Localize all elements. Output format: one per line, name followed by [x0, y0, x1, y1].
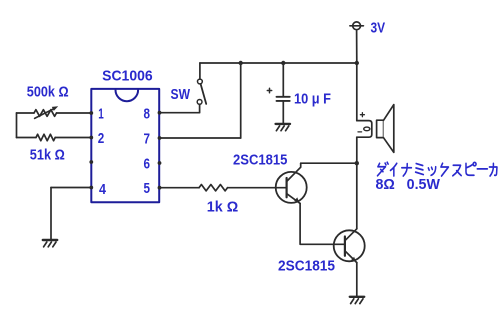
speaker SP1 magnet [377, 120, 384, 137]
ク [441, 163, 449, 176]
wire 1k to Q1 base [228, 187, 287, 189]
ダ [378, 162, 389, 176]
node pin1 dot [89, 111, 93, 115]
wire pin5 row left [160, 187, 200, 189]
カ [489, 163, 497, 176]
wire top rail [200, 62, 357, 64]
transistor Q1 circle [276, 172, 307, 203]
node rail-right junction [355, 61, 359, 65]
ground G2 [276, 124, 290, 131]
wire pin2 row right [55, 137, 91, 139]
svg-text:10 μ F: 10 μ F [294, 92, 331, 108]
node pin5 dot [158, 186, 162, 190]
wire Q1 collector to junction [301, 162, 357, 164]
node pin3 nub [89, 160, 93, 164]
ッ [428, 167, 435, 176]
IC U1 SC1006 body [91, 89, 159, 202]
wire cap bottom [282, 102, 284, 123]
svg-text:SC1006: SC1006 [102, 68, 153, 85]
wire Q2 emitter to ground [356, 263, 358, 296]
wire Q1 emitter down [300, 203, 345, 244]
svg-text:3V: 3V [371, 20, 386, 37]
svg-text:6: 6 [144, 156, 151, 173]
resistor VR1 arrow [35, 108, 55, 118]
wire cap top [282, 63, 284, 96]
svg-text:8Ω 0.5W: 8Ω 0.5W [376, 177, 441, 193]
label dynamic speaker (katakana) [378, 162, 497, 176]
resistor R2 1k zigzag [199, 185, 228, 191]
ピ [466, 162, 476, 175]
transistor Q2 circle [334, 230, 365, 261]
wire pin2 row left [17, 137, 37, 139]
ス [453, 165, 461, 175]
wire pin4 row [51, 187, 91, 189]
node pin8 dot [158, 111, 162, 115]
node rail-cap junction [281, 61, 285, 65]
svg-text:51k Ω: 51k Ω [30, 148, 65, 164]
node pin6 nub [158, 161, 162, 165]
svg-text:2SC1815: 2SC1815 [278, 259, 335, 275]
transistor Q1 base bar [286, 178, 288, 197]
capacitor C1 plus sign [267, 88, 271, 92]
node rail-pin7 junction [239, 61, 243, 65]
transistor Q1 collector [287, 163, 301, 181]
IC U1 notch [116, 90, 139, 101]
svg-text:SW: SW [171, 86, 191, 103]
node pin2 dot [89, 136, 93, 140]
wire 3V down [356, 30, 358, 63]
wire left loop vertical [16, 113, 18, 138]
wire main vertical to speaker [356, 63, 358, 121]
svg-text:1: 1 [98, 106, 104, 123]
transistor Q2 collector [345, 229, 357, 241]
switch SW bottom contact [197, 100, 202, 105]
ー [477, 168, 487, 170]
svg-text:2SC1815: 2SC1815 [233, 153, 287, 169]
switch SW blade [201, 84, 207, 104]
wire pin7 vertical [240, 63, 242, 138]
resistor R1 51k zigzag [36, 134, 55, 140]
svg-text:8: 8 [144, 106, 151, 123]
node pin4 dot [89, 186, 93, 190]
battery terminal 3V [353, 22, 361, 30]
speaker SP1 minus mark [358, 131, 362, 133]
speaker SP1 plus mark [360, 113, 364, 117]
ミ [416, 164, 424, 175]
wire pin1 row left [17, 112, 35, 114]
transistor Q1 emitter [287, 194, 301, 204]
wire main vertical to Q2 collector [356, 163, 358, 229]
switch SW top contact [198, 79, 203, 84]
wire speaker to collector junction [356, 137, 358, 163]
wire pin7 row [160, 137, 241, 139]
wire pin8 to switch [160, 104, 200, 112]
wire switch up to rail [199, 63, 201, 79]
node pin7 dot [158, 136, 162, 140]
resistor VR1 500k zigzag [34, 110, 57, 117]
speaker SP1 coil ellipse [364, 127, 370, 131]
ground G1 [43, 240, 57, 247]
wire pin1 row right [57, 112, 92, 114]
ナ [402, 164, 412, 176]
node collector junction [355, 161, 359, 165]
capacitor C1 plates [277, 96, 290, 98]
イ [390, 163, 396, 176]
wire pin4 down [50, 188, 52, 240]
speaker SP1 cone [384, 105, 394, 153]
svg-text:7: 7 [144, 131, 151, 148]
transistor Q2 emitter [345, 251, 357, 263]
svg-text:2: 2 [98, 130, 105, 147]
svg-text:1k Ω: 1k Ω [207, 200, 239, 216]
ground G3 [350, 297, 364, 304]
svg-text:5: 5 [144, 180, 151, 197]
transistor Q2 base bar [344, 237, 346, 256]
svg-text:500k Ω: 500k Ω [27, 84, 69, 100]
svg-text:4: 4 [99, 181, 107, 198]
speaker SP1 coil loop [357, 121, 372, 138]
